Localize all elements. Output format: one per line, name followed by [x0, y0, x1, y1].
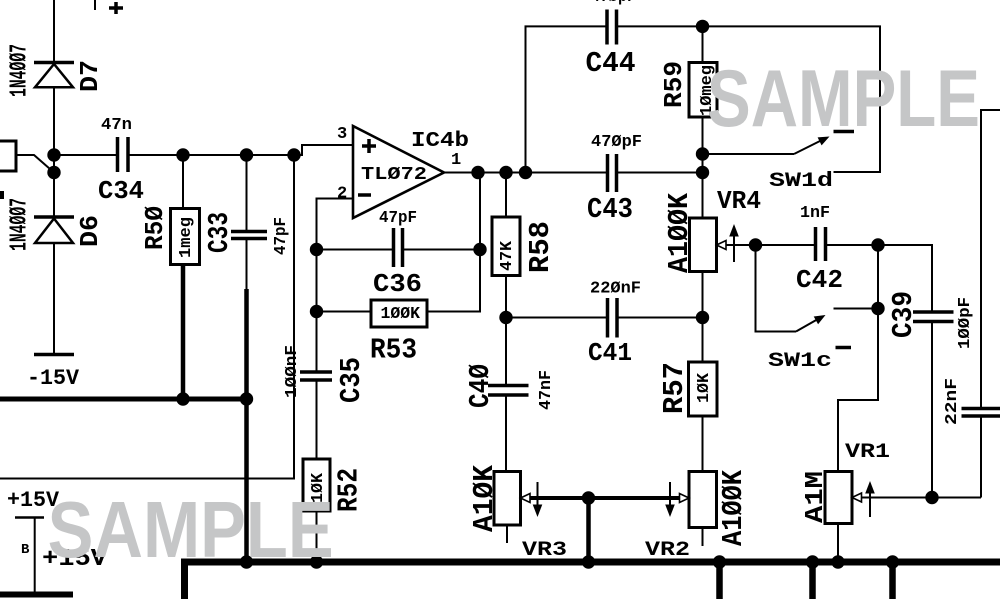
capacitor C36 — [317, 228, 481, 267]
wire right rail from SW1d area down — [838, 245, 878, 472]
label 1N4007 of D6 — [7, 198, 34, 251]
watermark SAMPLE bottom — [48, 485, 334, 574]
capacitor C39 — [878, 245, 954, 498]
capacitor C44 — [607, 10, 617, 45]
svg-text:1N4ØØ7: 1N4ØØ7 — [7, 198, 34, 251]
svg-text:C33: C33 — [203, 212, 236, 253]
potentiometer VR2 — [665, 472, 716, 547]
label C36 — [373, 269, 422, 299]
svg-text:D6: D6 — [75, 215, 105, 247]
svg-text:1ØØnF: 1ØØnF — [283, 345, 302, 398]
svg-text:A1ØØK: A1ØØK — [717, 469, 750, 546]
thick bus y398 — [0, 397, 247, 402]
label R57 — [658, 362, 691, 414]
svg-text:47n: 47n — [101, 116, 132, 135]
label D7 — [75, 60, 105, 92]
capacitor C34 — [118, 137, 129, 172]
svg-text:47ØpF: 47ØpF — [591, 0, 636, 7]
svg-text:SW1d: SW1d — [769, 170, 833, 193]
wire C44 to corner — [617, 26, 881, 172]
pin 1 — [451, 151, 461, 170]
potentiometer VR4 — [690, 218, 756, 318]
label IC4b — [411, 130, 469, 153]
label SW1d — [769, 170, 833, 193]
label D6 — [75, 215, 105, 247]
label 47pF of C33 — [272, 217, 291, 255]
label C41 — [588, 338, 632, 368]
label 47nF of C40 — [537, 370, 556, 410]
pin 2 — [337, 185, 347, 204]
label 470pF cut at top — [591, 0, 636, 7]
svg-text:D7: D7 — [75, 60, 105, 92]
svg-text:R57: R57 — [658, 362, 691, 414]
capacitor C43 — [608, 154, 617, 192]
potentiometer VR3 — [494, 472, 679, 544]
svg-text:R59: R59 — [659, 61, 689, 108]
svg-text:1meg: 1meg — [177, 217, 196, 258]
left edge mark — [0, 191, 4, 199]
svg-text:C34: C34 — [98, 176, 144, 206]
resistor R58 — [492, 173, 520, 318]
bus stub x892.5 — [889, 562, 896, 599]
watermark SAMPLE top — [707, 54, 980, 144]
capacitor C41 — [506, 298, 703, 338]
label 100pF of C39 — [956, 297, 975, 349]
svg-text:SW1c: SW1c — [768, 350, 832, 373]
label 1nF — [800, 204, 830, 223]
label R58 — [524, 221, 557, 273]
label 47n — [101, 116, 132, 135]
label R53 — [370, 334, 417, 367]
wire node to feedback left rail — [0, 155, 294, 479]
svg-text:C42: C42 — [796, 265, 843, 295]
svg-text:C41: C41 — [588, 338, 632, 368]
label C43 — [587, 193, 633, 226]
svg-text:2: 2 — [337, 185, 347, 204]
svg-text:3: 3 — [337, 125, 347, 144]
switch SW1c — [756, 245, 879, 348]
svg-text:R5Ø: R5Ø — [140, 206, 170, 250]
label C40 — [464, 364, 497, 408]
label SW1c — [768, 350, 832, 373]
svg-text:C44: C44 — [586, 47, 636, 80]
label C35 — [335, 357, 368, 403]
resistor R59 — [689, 26, 717, 218]
label VR4 — [717, 186, 761, 216]
svg-text:R58: R58 — [524, 221, 557, 273]
label 470pF of C43 — [591, 133, 642, 152]
resistor R50 — [171, 155, 200, 265]
capacitor C35 — [300, 372, 332, 459]
label A10K of VR3 — [468, 464, 501, 532]
pin 3 — [337, 125, 347, 144]
capacitor 22nF column — [962, 110, 1000, 498]
power -15V — [27, 355, 80, 392]
svg-text:C4Ø: C4Ø — [464, 364, 497, 408]
resistor R53 — [317, 173, 481, 373]
resistor R57 — [689, 318, 718, 472]
label VR2 — [645, 539, 690, 562]
wire D6 to -15V — [53, 243, 55, 355]
bus stub x812.5 — [809, 562, 816, 599]
wire C34 to opamp with jog — [128, 145, 353, 155]
bottom bus — [185, 562, 1000, 599]
svg-text:A1ØK: A1ØK — [468, 464, 501, 532]
svg-text:1N4ØØ7: 1N4ØØ7 — [7, 44, 34, 97]
label C34 — [98, 176, 144, 206]
svg-text:B: B — [21, 542, 30, 558]
svg-text:C39: C39 — [887, 291, 920, 338]
bus stub x719.5 — [716, 562, 723, 599]
diode D7 — [34, 63, 74, 88]
svg-text:1ØK: 1ØK — [695, 372, 714, 403]
label +15V lower — [42, 546, 108, 573]
svg-text:A1M: A1M — [800, 471, 830, 523]
plus mark top edge — [109, 2, 123, 14]
label 1N4007 of D7 — [7, 44, 34, 97]
label 220nF — [590, 280, 641, 299]
resistor R52 — [303, 459, 330, 562]
node A input wire — [54, 154, 118, 156]
label 100nF of C35 — [283, 345, 302, 398]
capacitor C42 — [756, 227, 879, 261]
label R52 — [333, 468, 366, 512]
svg-text:SAMPLE: SAMPLE — [707, 54, 980, 144]
wire pin2 — [317, 199, 354, 250]
potentiometer VR1 — [825, 472, 981, 563]
svg-text:1nF: 1nF — [800, 204, 830, 223]
power +15V rail — [0, 488, 73, 595]
diode D6 — [34, 217, 74, 243]
svg-text:TLØ72: TLØ72 — [361, 165, 427, 185]
svg-text:A1ØØK: A1ØØK — [663, 192, 696, 273]
label C44 — [586, 47, 636, 80]
svg-text:IC4b: IC4b — [411, 130, 469, 153]
label A100K of VR2 — [717, 469, 750, 546]
svg-text:47nF: 47nF — [537, 370, 556, 410]
svg-text:R52: R52 — [333, 468, 366, 512]
svg-text:1ØØK: 1ØØK — [381, 305, 421, 324]
svg-text:VR1: VR1 — [845, 441, 890, 464]
label 22nF — [943, 378, 962, 425]
svg-text:22ØnF: 22ØnF — [590, 280, 641, 299]
svg-text:SAMPLE: SAMPLE — [48, 485, 334, 574]
svg-text:47pF: 47pF — [272, 217, 291, 255]
svg-text:47K: 47K — [498, 240, 517, 271]
wire R50 to bus (thick) — [181, 265, 186, 400]
label C39 — [887, 291, 920, 338]
svg-text:47ØpF: 47ØpF — [591, 133, 642, 152]
wire C43 to node — [617, 172, 703, 174]
svg-text:22nF: 22nF — [943, 378, 962, 425]
capacitor C33 — [231, 155, 267, 562]
label R50 — [140, 206, 170, 250]
wire vertical x54 top — [53, 0, 55, 63]
op-amp IC4b — [353, 126, 444, 218]
switch SW1d — [703, 132, 855, 155]
capacitor C40 — [488, 318, 529, 472]
svg-text:1: 1 — [451, 151, 461, 170]
label VR3 — [522, 539, 567, 562]
svg-text:C35: C35 — [335, 357, 368, 403]
svg-text:VR4: VR4 — [717, 186, 761, 216]
label 47pF of C36 — [379, 209, 417, 228]
svg-text:-15V: -15V — [27, 366, 80, 391]
svg-text:1ØØpF: 1ØØpF — [956, 297, 975, 349]
label C33 — [203, 212, 236, 253]
svg-text:C36: C36 — [373, 269, 422, 299]
stub top edge — [94, 0, 96, 10]
svg-text:47pF: 47pF — [379, 209, 417, 228]
connector J at left edge — [0, 141, 16, 171]
output wire pin1 — [444, 172, 608, 174]
label A100K of VR4 — [663, 192, 696, 273]
label B — [21, 542, 30, 558]
wire between diodes — [53, 87, 55, 217]
svg-text:R53: R53 — [370, 334, 417, 367]
svg-text:C43: C43 — [587, 193, 633, 226]
wire connector to node — [16, 155, 54, 173]
label R59 — [659, 61, 689, 108]
label A1M of VR1 — [800, 471, 830, 523]
wire up to C44 — [526, 26, 608, 172]
label C42 — [796, 265, 843, 295]
thick wire wiper junction down — [586, 498, 591, 562]
label VR1 — [845, 441, 890, 464]
